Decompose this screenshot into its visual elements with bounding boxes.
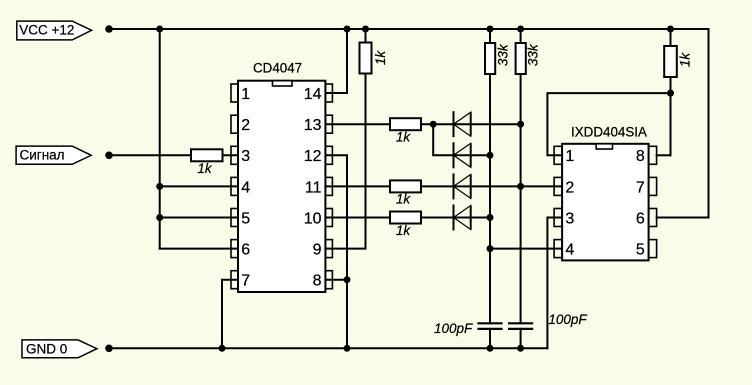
svg-text:8: 8 xyxy=(313,273,322,290)
node VCC R7 xyxy=(517,26,524,33)
node pin4 branch xyxy=(156,183,163,190)
wire pin 4 IXDD xyxy=(490,248,562,250)
resistor R2 1k (vertical top) xyxy=(360,43,389,74)
svg-text:GND 0: GND 0 xyxy=(26,341,67,356)
node GND C2 xyxy=(517,345,524,352)
pin 10 U1 xyxy=(304,209,333,228)
wire R8 1k right column xyxy=(670,29,672,46)
node VCC R8 xyxy=(667,26,674,33)
node D1 out xyxy=(517,121,524,128)
svg-text:100pF: 100pF xyxy=(548,312,587,327)
node pin8 U1 xyxy=(344,276,351,283)
svg-text:1k: 1k xyxy=(396,223,412,238)
wire D2 to 33k line xyxy=(471,154,490,156)
ground flag GND 0 xyxy=(22,340,97,358)
wire R3 to diode D1 xyxy=(421,123,471,125)
node VCC branch1 xyxy=(156,26,163,33)
pin 4 U2 xyxy=(554,240,574,259)
power flag VCC +12 xyxy=(17,21,92,40)
wire D4 to 33k line xyxy=(471,217,490,219)
wire R1 to pin 3 xyxy=(223,154,239,156)
svg-text:3: 3 xyxy=(241,148,250,165)
svg-text:9: 9 xyxy=(313,242,322,259)
svg-text:6: 6 xyxy=(636,210,645,227)
pin 12 U1 xyxy=(304,146,333,165)
svg-text:1k: 1k xyxy=(677,52,692,68)
svg-text:1k: 1k xyxy=(373,50,388,66)
node D4 out xyxy=(487,214,494,221)
pin 3 U2 xyxy=(554,209,574,228)
pin 9 U1 xyxy=(313,240,333,259)
wire pin 8 stub xyxy=(325,279,347,281)
pin 6 U2 xyxy=(636,209,657,228)
node signal terminal xyxy=(105,152,113,160)
wire VCC rail xyxy=(109,28,709,30)
svg-text:CD4047: CD4047 xyxy=(253,61,302,76)
pin 11 U1 xyxy=(305,177,333,196)
svg-text:33k: 33k xyxy=(496,43,511,66)
svg-text:4: 4 xyxy=(565,242,574,259)
node GND C1 xyxy=(487,345,494,352)
IC U2 IXDD404SIA xyxy=(562,124,649,260)
node pin5 branch xyxy=(156,214,163,221)
svg-text:1k: 1k xyxy=(197,161,213,176)
pin 2 U1 xyxy=(231,115,250,134)
resistor R7 33k xyxy=(516,43,541,74)
svg-text:12: 12 xyxy=(304,148,322,165)
wire branch to diode D2 xyxy=(433,124,471,155)
wire to pin 1 IXDD xyxy=(547,93,670,155)
pin 5 U1 xyxy=(231,209,250,228)
resistor R6 33k xyxy=(485,43,511,74)
pin 7 U1 xyxy=(231,271,250,290)
pin 8 U1 xyxy=(313,271,333,290)
pin 3 U1 xyxy=(231,146,250,165)
svg-text:2: 2 xyxy=(241,117,250,134)
diode D4 xyxy=(454,205,471,231)
wire pin 13 to R3 xyxy=(325,123,390,125)
svg-text:7: 7 xyxy=(241,273,250,290)
wire to pin 5 xyxy=(160,217,238,219)
svg-text:100pF: 100pF xyxy=(434,321,473,336)
svg-text:10: 10 xyxy=(304,210,322,227)
wire 33k R7 column xyxy=(520,29,522,43)
node VCC terminal xyxy=(105,25,113,33)
capacitor C2 100pF xyxy=(508,312,587,329)
pin 6 U1 xyxy=(231,240,250,259)
wire pin 12 down to GND xyxy=(325,155,347,348)
wire VCC branch to pins 4,5,6 xyxy=(159,29,161,249)
node VCC R2 xyxy=(362,26,369,33)
pin 1 U2 xyxy=(554,146,574,165)
wire 33k R6 column xyxy=(489,29,491,43)
wire pin 14 to VCC xyxy=(325,29,347,93)
resistor R8 1k (right) xyxy=(664,46,692,77)
wire pin 9 up to R2 xyxy=(325,74,365,249)
svg-text:VCC +12: VCC +12 xyxy=(19,23,74,38)
resistor R1 1k (signal) xyxy=(191,149,223,176)
diode D2 xyxy=(454,142,471,168)
pin 7 U2 xyxy=(636,177,657,196)
svg-text:3: 3 xyxy=(565,210,574,227)
wire pin6 IXDD to VCC right rail xyxy=(657,29,709,218)
wire pin 11 to R4 xyxy=(325,185,390,187)
svg-text:11: 11 xyxy=(305,179,322,196)
svg-text:5: 5 xyxy=(636,242,645,259)
node VCC pin14 xyxy=(344,26,351,33)
svg-text:6: 6 xyxy=(241,242,250,259)
wire pin 7 to GND xyxy=(222,280,238,349)
svg-text:14: 14 xyxy=(304,86,322,103)
diode D1 xyxy=(454,111,471,137)
node pin4 IXDD xyxy=(487,245,494,252)
wire R5 to diode D4 xyxy=(421,217,471,219)
svg-text:Сигнал: Сигнал xyxy=(20,148,65,163)
svg-text:1k: 1k xyxy=(396,191,412,206)
pin 8 U2 xyxy=(636,146,657,165)
node GND pin12 xyxy=(344,345,351,352)
capacitor C1 100pF xyxy=(434,321,503,336)
node D1 D2 branch xyxy=(430,121,437,128)
pin 2 U2 xyxy=(554,177,574,196)
wire pin 10 to R5 xyxy=(325,217,390,219)
node R8 bottom xyxy=(667,90,674,97)
svg-text:13: 13 xyxy=(304,117,322,134)
wire R2 top to VCC xyxy=(365,29,367,43)
svg-text:IXDD404SIA: IXDD404SIA xyxy=(571,124,647,139)
pin 14 U1 xyxy=(304,84,333,103)
svg-text:1: 1 xyxy=(241,86,250,103)
svg-text:1: 1 xyxy=(565,148,574,165)
wire signal input to R1 xyxy=(109,154,191,156)
svg-text:4: 4 xyxy=(241,179,250,196)
port flag Сигнал xyxy=(16,146,91,164)
pin 13 U1 xyxy=(304,115,333,134)
wire to pin 8 IXDD xyxy=(657,154,671,156)
node D3 out xyxy=(517,183,524,190)
svg-text:7: 7 xyxy=(636,179,645,196)
resistor R3 1k (row pin13) xyxy=(390,118,421,144)
wire GND rail xyxy=(109,347,547,349)
wire to pin 6 xyxy=(160,248,238,250)
resistor R4 1k (row pin11) xyxy=(390,180,421,206)
svg-text:1k: 1k xyxy=(396,130,412,145)
pin 4 U1 xyxy=(231,177,250,196)
wire pin 3 IXDD to GND xyxy=(547,218,562,349)
wire D3 to pin 2 IXDD xyxy=(471,185,562,187)
diode D3 xyxy=(454,173,471,199)
node GND pin7 xyxy=(219,345,226,352)
resistor R5 1k (row pin10) xyxy=(390,212,421,238)
IC U1 CD4047 xyxy=(238,61,325,293)
svg-text:33k: 33k xyxy=(525,43,540,66)
node VCC R6 xyxy=(487,26,494,33)
pin 5 U2 xyxy=(636,240,657,259)
svg-text:2: 2 xyxy=(565,179,574,196)
pin 1 U1 xyxy=(231,84,250,103)
node GND terminal xyxy=(105,345,113,353)
wire D1 to 33k line xyxy=(471,123,521,125)
wire R4 to diode D3 xyxy=(421,185,471,187)
svg-text:5: 5 xyxy=(241,210,250,227)
svg-text:8: 8 xyxy=(636,148,645,165)
wire to pin 4 xyxy=(160,185,238,187)
node D2 out xyxy=(487,152,494,159)
